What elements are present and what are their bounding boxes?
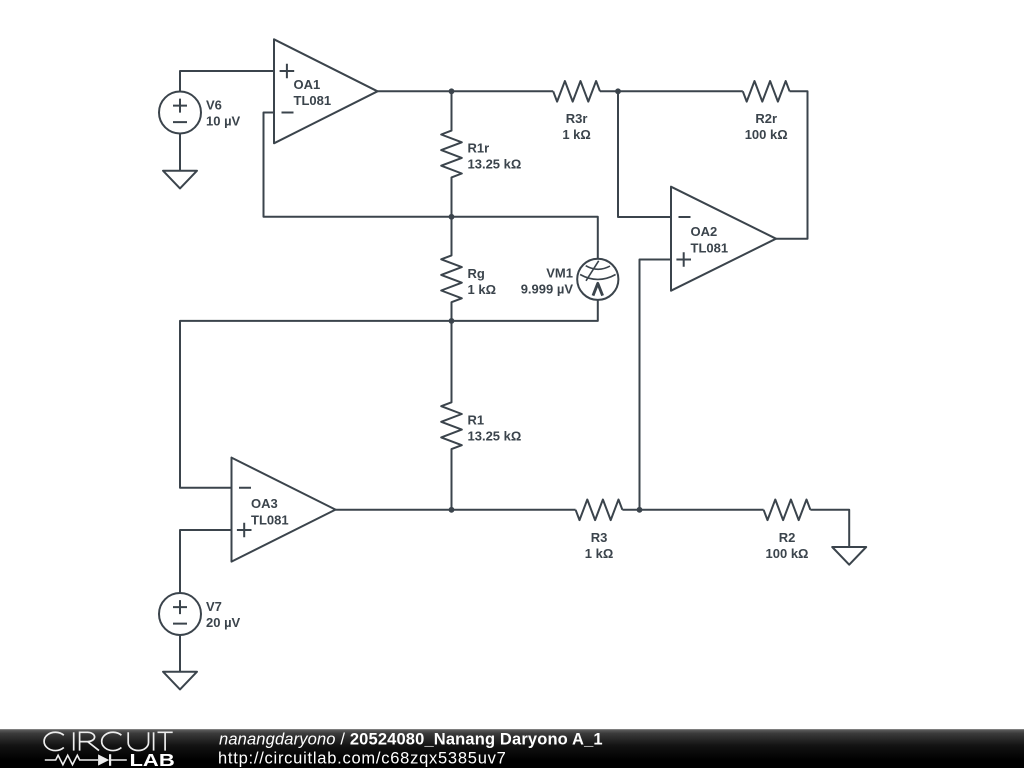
node C (R3r / R2r / OA2 inverting)	[615, 88, 621, 94]
svg-text:10 µV: 10 µV	[206, 114, 241, 129]
svg-text:1 kΩ: 1 kΩ	[468, 282, 497, 297]
svg-text:1 kΩ: 1 kΩ	[585, 546, 614, 561]
wire node B to VM1 top	[452, 217, 598, 259]
resistor R1r	[441, 91, 462, 217]
svg-text:R3r: R3r	[566, 111, 588, 126]
CircuitLab logo CIRCUIT wordmark	[44, 732, 173, 750]
label R2r value	[745, 111, 788, 142]
label VM1 value	[521, 266, 574, 297]
resistor R2r	[743, 81, 790, 102]
node E (OA3 output / R1 bottom)	[449, 507, 455, 513]
voltage source V7	[159, 593, 201, 635]
ground (below V7)	[163, 672, 197, 690]
svg-text:9.999 µV: 9.999 µV	[521, 282, 574, 297]
label V7 value	[206, 599, 241, 630]
wire OA3 output to R3	[336, 509, 576, 511]
svg-text:100 kΩ: 100 kΩ	[766, 546, 809, 561]
svg-text:100 kΩ: 100 kΩ	[745, 127, 788, 142]
resistor Rg	[441, 217, 462, 321]
resistor R3	[576, 500, 623, 521]
footer bar	[0, 729, 1024, 768]
node B (R1r bottom / feedback / Rg top / VM1 top)	[449, 214, 455, 220]
voltage source V6	[159, 92, 201, 134]
wire OA2 noninverting input down to node F	[640, 260, 672, 510]
label OA3	[251, 496, 289, 527]
label R3 value	[585, 530, 614, 561]
svg-text:13.25 kΩ: 13.25 kΩ	[468, 429, 522, 444]
label R3r value	[562, 111, 591, 142]
svg-text:V6: V6	[206, 98, 222, 113]
wire node D to OA3 inverting input	[180, 321, 452, 488]
svg-text:VM1: VM1	[546, 266, 573, 281]
svg-text:20 µV: 20 µV	[206, 615, 241, 630]
svg-text:13.25 kΩ: 13.25 kΩ	[468, 157, 522, 172]
label R1r value	[468, 141, 522, 172]
label V6 value	[206, 98, 241, 129]
op-amp OA1	[274, 39, 378, 143]
svg-text:V7: V7	[206, 599, 222, 614]
op-amp OA2	[671, 187, 776, 291]
wire VM1 bottom to node D	[452, 300, 598, 321]
resistor R2	[764, 500, 811, 521]
label OA2	[691, 224, 729, 255]
wire node C down to OA2 inverting input	[618, 91, 671, 217]
wire V6 minus to ground	[179, 134, 181, 171]
svg-text:R1: R1	[468, 413, 485, 428]
svg-text:OA1: OA1	[294, 77, 321, 92]
label R1 value	[468, 413, 522, 444]
wire R3r to R2r	[600, 90, 743, 92]
CircuitLab logo resistor-diode glyph	[45, 754, 127, 766]
label OA1	[294, 77, 332, 108]
svg-text:R2: R2	[779, 530, 796, 545]
svg-text:nanangdaryono / 20524080_Nanan: nanangdaryono / 20524080_Nanang Daryono …	[219, 731, 603, 749]
ground (below V6)	[163, 171, 197, 189]
svg-text:TL081: TL081	[251, 512, 289, 527]
op-amp OA3	[232, 458, 336, 562]
label Rg value	[468, 266, 497, 297]
svg-text:Rg: Rg	[468, 266, 485, 281]
ground (right of R2)	[832, 547, 866, 565]
wire OA1 inverting input feedback down to node B	[264, 113, 452, 217]
wire V7 minus to ground	[179, 635, 181, 672]
svg-text:R1r: R1r	[468, 141, 490, 156]
wire R2r to OA2 output	[776, 91, 808, 238]
svg-text:http://circuitlab.com/c68zqx53: http://circuitlab.com/c68zqx5385uv7	[218, 750, 507, 768]
svg-text:TL081: TL081	[294, 93, 332, 108]
wire OA3 noninverting input to V7	[180, 530, 232, 593]
svg-text:1 kΩ: 1 kΩ	[562, 127, 591, 142]
wire OA1 output to R3r	[378, 90, 554, 92]
wire R3 to R2	[622, 509, 763, 511]
svg-text:R3: R3	[591, 530, 608, 545]
svg-text:OA2: OA2	[691, 224, 718, 239]
svg-text:R2r: R2r	[755, 111, 777, 126]
svg-text:LAB: LAB	[130, 750, 175, 768]
wire V6 plus to OA1 noninverting input	[180, 71, 274, 92]
wire R2 to ground	[810, 510, 849, 547]
node D (Rg bottom / R1 top / wire to OA3)	[449, 318, 455, 324]
resistor R3r	[553, 81, 600, 102]
label R2 value	[766, 530, 809, 561]
voltmeter VM1	[577, 259, 618, 300]
resistor R1	[441, 321, 462, 510]
svg-text:OA3: OA3	[251, 496, 278, 511]
node F (R3 / R2 / OA2 noninverting)	[637, 507, 643, 513]
node A (OA1 output / R1r top)	[449, 88, 455, 94]
svg-text:TL081: TL081	[691, 241, 729, 256]
